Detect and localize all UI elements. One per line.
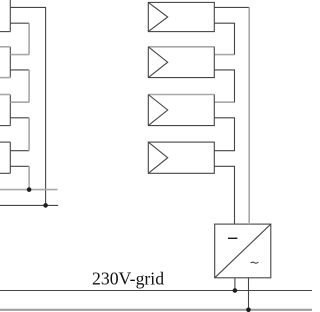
svg-text:230V-grid: 230V-grid [92, 268, 164, 288]
